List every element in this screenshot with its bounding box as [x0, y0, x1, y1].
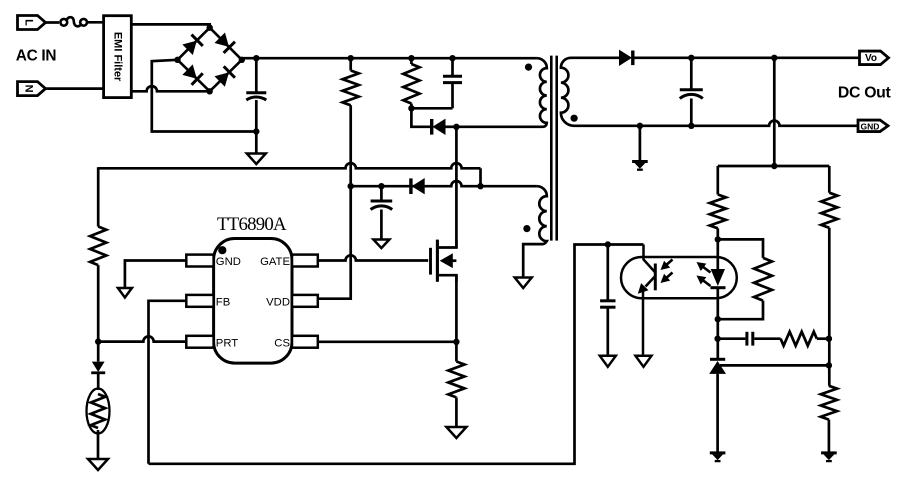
ground primary (aux winding) — [515, 278, 532, 289]
wire snubber cap bottom — [451, 83, 454, 109]
junction bridge top — [207, 25, 213, 31]
transformer auxiliary winding — [523, 186, 547, 276]
snubber diode D5 — [432, 119, 446, 135]
lower divider resistor R9 — [821, 386, 837, 420]
ground secondary (output) — [632, 162, 648, 170]
wire CS resistor top — [455, 342, 458, 362]
terminal N (AC neutral) — [18, 82, 46, 96]
LED bias resistor R6 — [754, 258, 772, 301]
shunt regulator U3 TL431 — [709, 359, 726, 374]
junction snubber cap top — [449, 55, 455, 61]
terminal Vo — [860, 51, 889, 65]
opto LED D9 — [710, 269, 725, 288]
line-sense wire (hops over startup and drain verticals) — [98, 163, 480, 186]
VDD capacitor C3 — [371, 201, 393, 210]
junction ref to divider — [826, 362, 832, 368]
svg-text:FB: FB — [216, 297, 230, 309]
aux phase dot — [523, 225, 530, 232]
wire diode to varistor — [97, 373, 100, 390]
junction aux feed — [477, 183, 483, 189]
junction comp to divider — [826, 336, 832, 342]
wire TL431 anode — [716, 374, 719, 453]
transistor Q1 MOSFET — [431, 240, 457, 282]
IC pin 1 marker dot — [218, 246, 226, 254]
label DC Out — [838, 85, 892, 102]
wire to startup resistor — [349, 58, 352, 70]
wire CS pin — [318, 340, 457, 343]
wire N to EMI filter — [46, 87, 104, 90]
secondary phase dot — [571, 115, 578, 122]
wire GND pin to ground — [125, 261, 186, 288]
wire snubber cap top — [451, 58, 454, 76]
FB filter capacitor C5 — [600, 301, 615, 307]
junction PRT node — [95, 338, 101, 344]
pin PRT — [186, 336, 238, 350]
op-amp U1 TT6890A body — [214, 239, 292, 364]
wire LED bias branch top — [718, 239, 763, 258]
wire output cap bottom — [690, 99, 693, 126]
bridge diode D3 (left to bottom) — [178, 60, 210, 92]
wire CS resistor to ground — [455, 397, 458, 426]
wire varistor to ground — [97, 430, 100, 459]
junction VDD riser — [348, 183, 354, 189]
wire snubber diode to drain node — [445, 125, 456, 128]
wire FB filter cap to ground — [606, 307, 609, 355]
wire bridge left corner to negative return — [152, 60, 256, 132]
wire secondary to output diode — [570, 56, 619, 59]
junction output cap top — [688, 55, 694, 61]
current sense resistor R4 — [448, 362, 464, 398]
label AC IN — [16, 47, 57, 64]
transformer core — [551, 56, 556, 241]
bulk capacitor C1 — [246, 93, 266, 100]
svg-text:GND: GND — [861, 121, 880, 131]
wire lower divider drop — [828, 166, 831, 193]
varistor / photoresistor RV1 — [87, 389, 110, 434]
bridge diode D1 (left to top) — [178, 28, 210, 60]
ground primary (CS resistor) — [446, 427, 466, 438]
upper feedback resistor R5 — [710, 195, 726, 229]
lower feedback resistor R7 — [821, 193, 837, 228]
wire aux feed — [481, 185, 537, 188]
FB return collector wire — [149, 245, 644, 464]
junction comp node — [714, 336, 720, 342]
wire VDD cap bottom — [380, 210, 383, 246]
svg-text:AC IN: AC IN — [16, 47, 57, 64]
EMI filter block — [104, 16, 132, 98]
line-sense resistor R3 — [90, 227, 106, 266]
pin VDD — [266, 295, 318, 309]
wire divider feed — [773, 58, 776, 166]
wire bulk cap top — [255, 58, 258, 91]
svg-text:L: L — [23, 19, 35, 26]
compensation wire — [718, 337, 746, 340]
snubber resistor R2 — [403, 64, 419, 104]
junction output gnd — [637, 123, 643, 129]
junction output branch top — [771, 55, 777, 61]
wire comp cap to resistor — [754, 337, 780, 340]
ground primary (VDD cap) — [373, 240, 389, 249]
fuse F1 — [60, 17, 87, 26]
wire L to fuse — [46, 21, 60, 24]
transformer primary winding — [456, 58, 546, 127]
wire lower divider to ground — [828, 420, 831, 453]
pin CS — [274, 336, 318, 350]
junction bridge bottom — [207, 88, 213, 94]
svg-text:EMI Filter: EMI Filter — [112, 32, 124, 82]
wire output gnd stem — [639, 126, 642, 161]
wire FB pin drop — [149, 301, 187, 464]
output rail Vo — [632, 56, 859, 59]
wire upper divider drop — [716, 166, 719, 195]
wire sense resistor to PRT node — [97, 265, 100, 342]
wire left sense drop — [97, 167, 100, 226]
wire source to CS node — [455, 275, 458, 342]
junction output cap bottom — [688, 123, 694, 129]
wire HV rail — [242, 57, 537, 60]
svg-text:N: N — [23, 85, 35, 93]
ground primary (sense chain) — [88, 459, 108, 470]
wire VDD riser — [318, 186, 351, 299]
compensation resistor R8 — [781, 332, 817, 346]
ground primary (IC GND) — [118, 288, 132, 298]
junction bridge left — [174, 57, 180, 63]
junction VDD cap — [378, 183, 384, 189]
junction startup resistor top — [348, 55, 354, 61]
ground primary (opto emitter) — [636, 356, 652, 367]
wire fuse to EMI filter — [87, 21, 104, 24]
junction LED bottom — [715, 316, 721, 322]
divider top rail — [718, 165, 830, 168]
ground primary (bulk cap) — [247, 154, 266, 165]
terminal GND — [858, 120, 888, 132]
junction divider feed — [771, 163, 777, 169]
wire snubber resistor bottom — [411, 104, 431, 127]
svg-text:GATE: GATE — [260, 256, 290, 268]
wire snubber RC link — [411, 107, 452, 110]
junction snubber resistor top — [408, 55, 414, 61]
ground secondary (divider) — [821, 453, 837, 461]
transformer secondary winding — [561, 58, 574, 126]
svg-text:PRT: PRT — [216, 337, 238, 349]
wire comp resistor to divider — [817, 337, 829, 340]
svg-text:VDD: VDD — [266, 297, 290, 309]
junction LED top — [715, 236, 721, 242]
wire VDD cap top — [380, 186, 383, 200]
wire drain riser — [455, 127, 458, 248]
TL431 ref wire — [720, 364, 829, 367]
junction drain node — [453, 124, 459, 130]
optocoupler U2 body — [621, 257, 737, 298]
wire startup resistor to VDD node (hop over line-sense wire) — [349, 105, 352, 186]
svg-text:GND: GND — [216, 256, 241, 268]
svg-text:TT6890A: TT6890A — [217, 214, 287, 235]
wire LED bias branch bottom — [718, 301, 763, 320]
ground primary (FB filter) — [600, 356, 616, 367]
wire bulk cap bottom — [255, 100, 258, 153]
wire LED cathode — [716, 287, 719, 359]
LED light arrows — [697, 262, 711, 286]
junction bulk cap top — [253, 55, 259, 61]
bridge diode D4 (bottom to right) — [210, 60, 242, 92]
IC title TT6890A — [217, 214, 287, 235]
terminal L (AC line) — [18, 16, 46, 30]
wire divider mid — [828, 228, 831, 386]
startup resistor R1 — [343, 71, 359, 106]
pin GATE — [260, 255, 318, 269]
line-sense diode D7 — [91, 362, 105, 373]
wire to LED node — [716, 228, 719, 269]
primary phase dot — [525, 64, 532, 71]
pin GND — [186, 255, 241, 269]
wire FB filter cap — [606, 245, 609, 301]
junction bulk cap bottom — [253, 128, 259, 134]
wire EMI top to bridge — [131, 24, 209, 27]
pin FB — [186, 295, 230, 309]
wire output cap top — [690, 58, 693, 89]
ground secondary (TL431) — [710, 453, 726, 461]
compensation capacitor C6 — [747, 332, 753, 346]
wire EMI bottom to bridge (hop over vertical) — [131, 86, 209, 91]
snubber capacitor C2 — [443, 76, 462, 82]
output return rail (hop over divider feed) — [574, 121, 858, 126]
svg-text:CS: CS — [274, 337, 290, 349]
wire GATE pin (hop over VDD riser) — [318, 255, 428, 260]
junction FB filter — [605, 241, 611, 247]
wire PRT pin (hop over FB wire) — [98, 336, 186, 341]
output capacitor C4 — [680, 90, 703, 99]
junction CS node — [453, 339, 459, 345]
junction snubber RC — [408, 105, 414, 111]
output rectifier diode D8 — [619, 50, 633, 66]
opto phototransistor — [638, 245, 656, 356]
wire PRT node to diode — [97, 342, 100, 362]
bridge diode D2 (top to right) — [210, 28, 242, 60]
photo light arrows — [661, 260, 673, 284]
svg-text:Vo: Vo — [865, 53, 877, 64]
wire to snubber resistor — [410, 58, 413, 64]
VDD supply wire (hop over drain vertical) — [351, 181, 481, 186]
VDD rectifier diode D6 — [411, 178, 425, 194]
svg-text:DC Out: DC Out — [838, 85, 892, 102]
junction bridge right — [239, 57, 245, 63]
